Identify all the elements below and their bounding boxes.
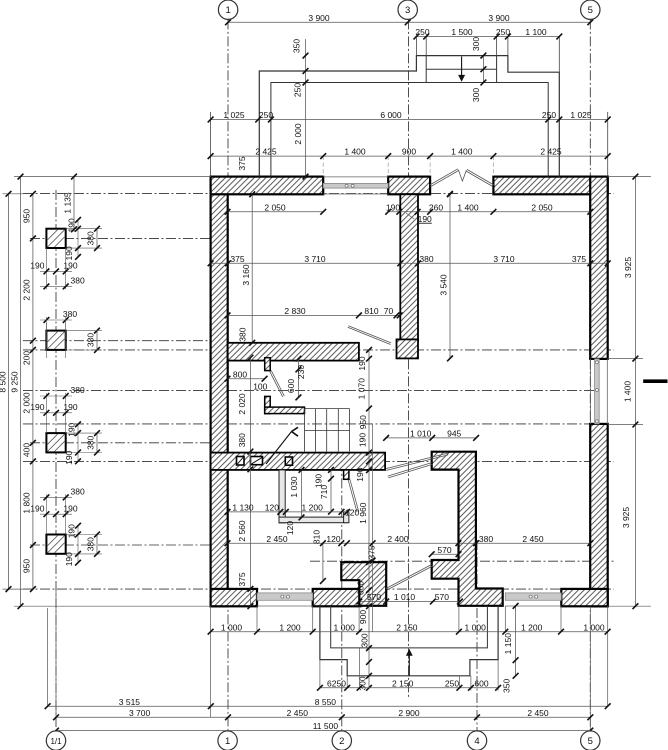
bathroom dim 190 710 [330, 470, 332, 512]
interior wall on axis 3 [400, 194, 418, 341]
svg-text:350: 350 [502, 679, 512, 693]
dim row 375 3710 380 3710 375 [211, 262, 608, 264]
svg-text:2 560: 2 560 [237, 520, 247, 542]
svg-text:375: 375 [367, 545, 377, 559]
axis circle 2 bottom [332, 731, 351, 750]
svg-text:9 250: 9 250 [10, 371, 20, 393]
bathroom partition right lower piece [344, 512, 349, 523]
svg-text:3 710: 3 710 [493, 254, 515, 264]
dim row 11500 [56, 730, 590, 732]
svg-text:4: 4 [474, 736, 479, 747]
extension line x=372.6 lower rooms [372, 424, 374, 632]
axis 3 vertical grid line [408, 19, 410, 697]
svg-text:380: 380 [63, 309, 77, 319]
svg-text:8 500: 8 500 [0, 371, 8, 393]
right exterior wall lower [590, 424, 608, 606]
svg-text:1 200: 1 200 [302, 503, 324, 513]
axis 1 vertical grid line [227, 19, 229, 731]
bottom wall middle segment [313, 589, 361, 606]
svg-text:3 700: 3 700 [129, 708, 151, 718]
axis circle 5 bottom [581, 731, 600, 750]
axis circle 1/1 bottom [46, 731, 65, 750]
svg-text:380: 380 [238, 327, 248, 341]
svg-text:1 000: 1 000 [583, 622, 605, 632]
svg-text:380: 380 [86, 231, 96, 245]
svg-text:190: 190 [358, 433, 368, 447]
stub wall below band (bathroom jamb) [344, 470, 349, 479]
svg-text:190: 190 [386, 202, 400, 212]
stair treads [304, 409, 306, 452]
svg-text:190: 190 [30, 503, 44, 513]
svg-text:710: 710 [319, 485, 329, 499]
axis A horizontal grid line [23, 193, 614, 195]
horizontal grid line col1 [30, 237, 211, 239]
lower doorway leaf a [386, 455, 448, 471]
dim row 800 [228, 378, 265, 380]
svg-text:190: 190 [67, 524, 77, 538]
svg-text:3 925: 3 925 [623, 257, 633, 279]
svg-text:8 550: 8 550 [315, 697, 337, 707]
svg-text:1 010: 1 010 [410, 429, 432, 439]
svg-text:570: 570 [437, 545, 451, 555]
svg-text:945: 945 [447, 429, 461, 439]
dim row 3700 2450 2900 2450 [56, 716, 590, 718]
svg-text:1 000: 1 000 [334, 622, 356, 632]
svg-text:3 710: 3 710 [304, 254, 326, 264]
svg-text:5: 5 [588, 5, 593, 16]
window bottom-left [257, 593, 313, 600]
svg-text:1 150: 1 150 [503, 633, 513, 655]
dim 375 vertical near entrance [370, 540, 376, 546]
dim row interior top 2050 190 260 1400 2050 [228, 211, 324, 213]
entrance left pier [341, 562, 386, 606]
svg-text:2 200: 2 200 [22, 279, 32, 301]
bathroom dim 1030 [301, 470, 303, 518]
svg-text:1 010: 1 010 [394, 592, 416, 602]
svg-text:375: 375 [572, 254, 586, 264]
svg-text:250: 250 [445, 678, 459, 688]
svg-text:1 000: 1 000 [221, 622, 243, 632]
duct opening 1 [237, 457, 245, 466]
window right wall [595, 359, 600, 424]
closet L-wall vertical [265, 396, 271, 413]
svg-text:3 515: 3 515 [119, 697, 141, 707]
svg-text:380: 380 [419, 254, 433, 264]
svg-text:190: 190 [63, 261, 77, 271]
svg-text:2 000: 2 000 [293, 123, 303, 145]
dim row 2425 1400 900 1400 2425 [211, 155, 608, 157]
axis 1/1 vertical grid line [55, 190, 57, 731]
bottom wall left corner [211, 589, 257, 606]
hall vertical dims 2020 380 [249, 358, 251, 470]
tick on axis A near door [447, 191, 453, 197]
svg-text:3 160: 3 160 [241, 264, 251, 286]
svg-text:1 135: 1 135 [63, 192, 73, 214]
svg-text:100: 100 [253, 381, 267, 391]
svg-text:2 150: 2 150 [392, 678, 414, 688]
dim row 6250 2150 250 600 [320, 687, 498, 689]
svg-text:950: 950 [358, 415, 368, 429]
dim row 1025 250 6000 250 1025 [211, 119, 608, 121]
column 4 dims [66, 534, 102, 536]
left margin extension lines [14, 176, 211, 178]
dim row 570 1010 570 entrance [359, 601, 460, 603]
svg-text:375: 375 [237, 156, 247, 170]
svg-text:2: 2 [339, 736, 344, 747]
svg-text:2 150: 2 150 [396, 622, 418, 632]
svg-text:190: 190 [357, 356, 367, 370]
horizontal grid line col3 [30, 442, 211, 444]
svg-text:375: 375 [230, 254, 244, 264]
horizontal grid line entrance [310, 560, 614, 562]
axis 5 vertical grid line [589, 19, 591, 731]
svg-text:190: 190 [30, 261, 44, 271]
bottom wall right corner [561, 589, 607, 606]
entrance door leaf [387, 566, 433, 590]
horizontal grid line bottom wall [23, 588, 614, 590]
svg-text:3 900: 3 900 [308, 13, 330, 23]
svg-text:1 100: 1 100 [525, 27, 547, 37]
svg-text:3 540: 3 540 [439, 274, 449, 296]
steps vertical dims 900 300 300 [368, 606, 370, 688]
horizontal grid line right window bottom [23, 423, 600, 425]
svg-text:1: 1 [225, 736, 230, 747]
interior wall horizontal band [228, 343, 359, 361]
svg-text:2 050: 2 050 [264, 202, 286, 212]
extension lines top steps [415, 37, 417, 56]
svg-text:120: 120 [265, 503, 279, 513]
svg-text:190: 190 [30, 402, 44, 412]
entrance right wall complex [432, 452, 503, 606]
top entry step lines [426, 68, 496, 70]
svg-text:1 400: 1 400 [451, 147, 473, 157]
svg-text:250: 250 [259, 110, 273, 120]
axis circle 1 bottom [218, 731, 237, 750]
svg-text:6 000: 6 000 [380, 110, 402, 120]
svg-text:2 450: 2 450 [522, 534, 544, 544]
svg-text:1 400: 1 400 [623, 381, 633, 403]
column 1 on axis 1/1 [46, 229, 65, 248]
horizontal grid line col2 upper [23, 340, 211, 342]
left overall dim 8500 [8, 194, 10, 589]
stair direction arrow [266, 432, 292, 465]
horizontal grid line col4 [30, 544, 211, 546]
svg-text:2 020: 2 020 [237, 393, 247, 415]
double entrance door top [431, 170, 459, 186]
bathroom door leaf [348, 480, 357, 513]
dim row porch steps 250 1500 250 1100 [416, 36, 559, 38]
dim 570 upper [432, 553, 459, 555]
svg-text:380: 380 [71, 487, 85, 497]
svg-text:11 500: 11 500 [313, 721, 339, 731]
long vertical dim line right of stairs [368, 350, 370, 606]
svg-text:1 030: 1 030 [289, 476, 299, 498]
svg-text:380: 380 [86, 537, 96, 551]
svg-text:380: 380 [71, 276, 85, 286]
axis circle 5 top [581, 0, 600, 19]
svg-text:375: 375 [237, 572, 247, 586]
dim row 2450 120 2400 380 2450 [228, 542, 591, 544]
svg-text:800: 800 [233, 369, 247, 379]
svg-text:1 025: 1 025 [223, 110, 245, 120]
left room vertical dims 2560 375 [249, 469, 251, 606]
svg-text:380: 380 [237, 433, 247, 447]
svg-text:950: 950 [22, 559, 32, 573]
dim row 1130 120 1200 120 [228, 511, 348, 513]
axis circle 4 bottom [467, 731, 486, 750]
dim row 2830 810 70 [228, 314, 400, 316]
svg-text:570: 570 [367, 592, 381, 602]
svg-text:190: 190 [67, 422, 77, 436]
dim row 1000 1200 1000 2150 1000 1200 1000 [211, 631, 608, 633]
svg-text:1 960: 1 960 [358, 502, 368, 524]
svg-text:2 425: 2 425 [540, 147, 562, 157]
column 3 dims [66, 432, 102, 434]
column 3 on axis 1/1 [46, 433, 65, 452]
svg-text:900: 900 [358, 610, 368, 624]
svg-text:600: 600 [356, 581, 366, 595]
bottom terrace outer outline [320, 606, 498, 676]
extension dashed lines below top dim row [322, 156, 324, 176]
hall door leaf [348, 327, 391, 344]
window bottom-right [505, 593, 561, 600]
svg-text:1/1: 1/1 [50, 737, 62, 746]
axis circle 1 top [218, 0, 237, 19]
svg-text:1 000: 1 000 [465, 622, 487, 632]
duct opening 2 [251, 457, 263, 465]
svg-text:2 450: 2 450 [527, 708, 549, 718]
closet L-wall horizontal [265, 407, 305, 414]
dim row 3515 8550 [48, 705, 608, 707]
room vertical dim 3540 [449, 194, 451, 358]
svg-text:300: 300 [360, 633, 370, 647]
svg-text:250: 250 [496, 27, 510, 37]
porch vertical dim 350 250 2000 [305, 39, 307, 177]
svg-text:190: 190 [64, 552, 74, 566]
top exterior wall right segment [493, 177, 607, 195]
room vertical dim 3160 [251, 194, 253, 342]
top porch outer outline [259, 56, 559, 177]
svg-text:2 450: 2 450 [287, 708, 309, 718]
column 4 on axis 1/1 [46, 535, 65, 554]
column 1 dims [66, 228, 102, 230]
interior lower wall band [211, 453, 386, 470]
dim row 3900 3900 [228, 21, 590, 23]
svg-text:250: 250 [542, 110, 556, 120]
svg-text:1 200: 1 200 [521, 622, 543, 632]
svg-text:250: 250 [415, 27, 429, 37]
svg-text:1 200: 1 200 [279, 622, 301, 632]
svg-text:200: 200 [22, 351, 32, 365]
svg-text:260: 260 [429, 202, 443, 212]
axis circle 3 top [398, 0, 417, 19]
horizontal grid line mid wall [23, 349, 614, 351]
svg-text:120: 120 [345, 508, 359, 518]
left exterior wall [211, 177, 228, 607]
svg-text:600: 600 [286, 379, 296, 393]
left overall dim 9250 [20, 177, 22, 607]
svg-text:190: 190 [64, 450, 74, 464]
svg-text:1 070: 1 070 [357, 378, 367, 400]
svg-text:2 425: 2 425 [255, 147, 277, 157]
duct opening 3 [285, 457, 292, 465]
svg-text:3 925: 3 925 [621, 507, 631, 529]
steps vertical dim 1150 350 [515, 606, 517, 676]
svg-text:6250: 6250 [327, 678, 346, 688]
svg-text:380: 380 [71, 385, 85, 395]
bottom terrace inner outline [331, 606, 488, 648]
steps extension lines [319, 660, 321, 688]
closet vertical dim 230 600 [297, 359, 299, 398]
horizontal grid line lower band [23, 460, 614, 462]
svg-text:400: 400 [22, 443, 32, 457]
top exterior wall left segment [211, 177, 324, 195]
svg-text:190: 190 [63, 402, 77, 412]
dim 810 vertical [322, 543, 324, 581]
window top wall [323, 183, 388, 188]
axis marker bold dash right [643, 379, 667, 383]
svg-text:950: 950 [22, 209, 32, 223]
svg-text:3: 3 [405, 5, 410, 16]
left axis spacing dims 950 2200 200 2000 400 1800 950 [32, 194, 34, 589]
right exterior wall upper [590, 177, 608, 359]
svg-text:230: 230 [296, 365, 306, 379]
bottom terrace arrow up [408, 656, 410, 676]
svg-text:2 900: 2 900 [398, 708, 420, 718]
svg-text:190: 190 [418, 214, 432, 224]
svg-text:1 500: 1 500 [451, 27, 473, 37]
svg-text:380: 380 [86, 333, 96, 347]
svg-text:120: 120 [326, 534, 340, 544]
axis 2 vertical grid line [341, 461, 343, 731]
svg-text:810: 810 [364, 306, 378, 316]
svg-text:1 130: 1 130 [232, 503, 254, 513]
svg-text:570: 570 [435, 592, 449, 602]
svg-text:810: 810 [312, 530, 322, 544]
right margin extension lines [608, 176, 651, 178]
closet door leaf [270, 371, 283, 397]
column 2 dims [45, 323, 47, 358]
svg-text:70: 70 [384, 306, 394, 316]
svg-text:2 050: 2 050 [531, 202, 553, 212]
svg-text:1: 1 [225, 5, 230, 16]
svg-text:5: 5 [588, 736, 593, 747]
svg-text:2 450: 2 450 [266, 534, 288, 544]
svg-text:3 900: 3 900 [488, 13, 510, 23]
dim row 1010 945 [386, 437, 476, 439]
svg-text:300: 300 [471, 88, 481, 102]
bathroom partition bottom [279, 517, 348, 523]
svg-text:190: 190 [63, 503, 77, 513]
porch steps vertical dim 300 300 [482, 56, 484, 83]
bottom extension lines [47, 608, 49, 706]
top wall pier [388, 177, 430, 195]
svg-text:250: 250 [292, 83, 302, 97]
svg-text:190: 190 [355, 467, 365, 481]
svg-text:1 025: 1 025 [570, 110, 592, 120]
svg-text:380: 380 [479, 534, 493, 544]
bathroom partition left [279, 470, 285, 523]
column 2 on axis 1/1 [46, 331, 65, 350]
right vertical dims 3925 1400 3925 [634, 177, 636, 607]
svg-text:350: 350 [292, 39, 302, 53]
axis 4 vertical grid line [476, 540, 478, 731]
extension lines top left [210, 112, 212, 177]
svg-text:1 400: 1 400 [457, 202, 479, 212]
top porch inner outline [271, 83, 548, 177]
horizontal grid line right window top [23, 389, 600, 391]
svg-text:600: 600 [474, 678, 488, 688]
closet stub wall [265, 358, 271, 371]
svg-text:190: 190 [67, 218, 77, 232]
svg-text:2 400: 2 400 [387, 534, 409, 544]
svg-text:900: 900 [402, 147, 416, 157]
svg-text:300: 300 [471, 37, 481, 51]
top entry arrow down [461, 57, 463, 77]
svg-text:380: 380 [86, 435, 96, 449]
svg-text:2 830: 2 830 [284, 306, 306, 316]
svg-text:1 400: 1 400 [344, 147, 366, 157]
lower doorway leaf b [388, 464, 432, 478]
